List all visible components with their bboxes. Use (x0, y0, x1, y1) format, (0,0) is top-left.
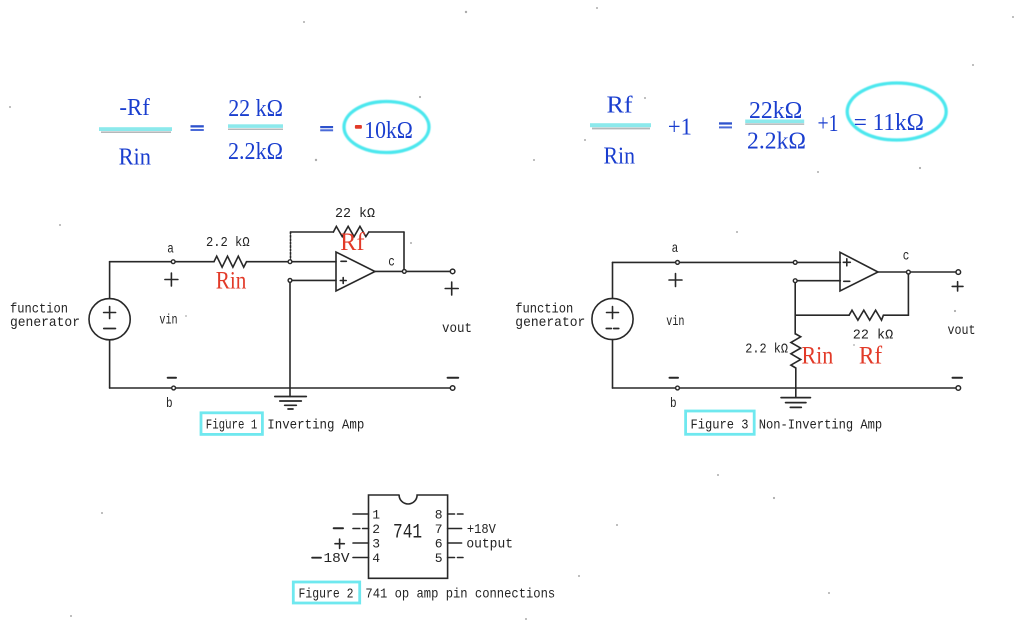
svg-text:generator: generator (515, 315, 585, 331)
svg-text:a: a (167, 242, 174, 258)
svg-text:2.2kΩ: 2.2kΩ (228, 139, 283, 165)
svg-text:vin: vin (666, 314, 684, 330)
svg-text:Figure 2: Figure 2 (299, 586, 354, 602)
svg-text:2.2 kΩ: 2.2 kΩ (745, 342, 788, 358)
svg-text:Rin: Rin (604, 144, 636, 170)
svg-text:Inverting Amp: Inverting Amp (267, 417, 364, 433)
svg-text:10kΩ: 10kΩ (364, 118, 413, 144)
svg-text:Rin: Rin (216, 267, 247, 294)
svg-text:Rin: Rin (119, 145, 151, 171)
svg-text:Non-Inverting Amp: Non-Inverting Amp (759, 417, 883, 433)
svg-text:Figure 1: Figure 1 (206, 417, 257, 433)
svg-text:= 11kΩ: = 11kΩ (854, 110, 924, 136)
svg-text:22 kΩ: 22 kΩ (335, 206, 375, 222)
svg-text:4: 4 (372, 551, 380, 566)
svg-text:Rf: Rf (607, 93, 633, 119)
svg-text:vin: vin (159, 313, 177, 329)
svg-text:Rf: Rf (340, 229, 365, 256)
svg-text:741 op amp pin connections: 741 op amp pin connections (365, 586, 555, 602)
svg-text:generator: generator (10, 315, 80, 331)
svg-text:a: a (672, 241, 679, 257)
svg-text:2.2 kΩ: 2.2 kΩ (206, 235, 250, 251)
svg-text:7: 7 (435, 522, 443, 537)
svg-text:22 kΩ: 22 kΩ (853, 328, 893, 344)
svg-text:-Rf: -Rf (119, 95, 149, 121)
svg-text:c: c (388, 255, 395, 271)
svg-text:+1: +1 (668, 115, 692, 141)
svg-text:b: b (166, 396, 173, 412)
svg-text:Rin: Rin (802, 342, 834, 369)
svg-text:3: 3 (372, 537, 380, 552)
svg-text:8: 8 (435, 508, 443, 523)
svg-text:Figure 3: Figure 3 (691, 417, 749, 433)
svg-text:22 kΩ: 22 kΩ (228, 96, 283, 122)
svg-text:2: 2 (372, 522, 380, 537)
svg-text:output: output (466, 537, 513, 553)
svg-text:2.2kΩ: 2.2kΩ (747, 129, 806, 155)
svg-text:741: 741 (393, 522, 422, 545)
svg-text:+1: +1 (818, 111, 839, 137)
svg-text:18V: 18V (324, 551, 351, 567)
svg-text:5: 5 (435, 551, 443, 566)
svg-text:6: 6 (435, 537, 443, 552)
svg-text:1: 1 (372, 508, 380, 523)
svg-text:b: b (670, 396, 677, 412)
svg-text:vout: vout (948, 323, 976, 339)
svg-text:vout: vout (442, 321, 472, 337)
svg-text:c: c (903, 249, 910, 265)
svg-text:Rf: Rf (859, 342, 883, 369)
